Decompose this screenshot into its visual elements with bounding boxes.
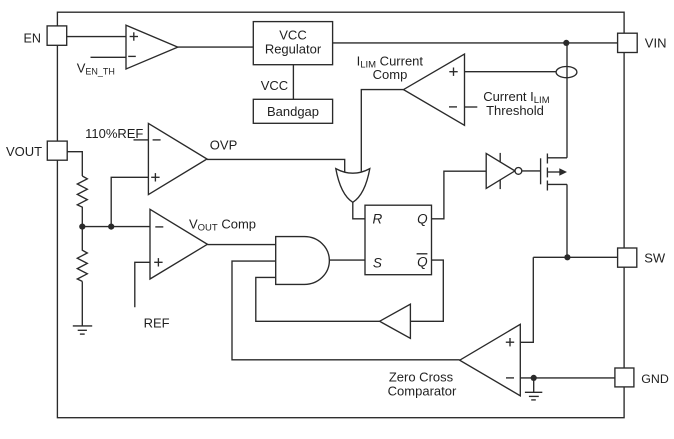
plus sign VOUT comparator <box>154 258 162 266</box>
block Bandgap <box>253 99 332 123</box>
wire divider bottom to ground <box>81 281 83 325</box>
svg-text:R: R <box>373 212 383 227</box>
wire AND gate output to flip-flop S input <box>329 259 365 261</box>
wire current sense branch from VIN node down to MOSFET drain <box>566 43 568 158</box>
AND gate feeding flip-flop S input <box>276 237 330 285</box>
wire ILIM comparator output to OR gate right input <box>361 90 403 174</box>
wire driver bubble to MOSFET gate <box>522 170 541 172</box>
wire SW node to zero cross + input <box>520 257 533 342</box>
op-amp EN comparator <box>126 25 178 69</box>
wire zero cross ground stub <box>533 378 535 392</box>
OR gate (inputs on top, output down to R) <box>336 169 370 203</box>
driver bottom supply tick <box>499 180 501 189</box>
current sense ellipse on VIN branch <box>556 67 577 78</box>
minus sign EN comparator <box>128 55 136 57</box>
wire REF to VOUT comp + input <box>135 262 150 307</box>
svg-text:VIN: VIN <box>645 36 667 51</box>
wire VCC Regulator to VIN pin <box>333 42 618 44</box>
junction node SW <box>564 254 570 260</box>
wire divider node to VOUT comp - input <box>82 226 150 228</box>
wire SW node to SW pin <box>533 256 617 258</box>
wire VCC Regulator to Bandgap <box>292 65 294 100</box>
transistor Q1 channel segments <box>546 154 548 191</box>
svg-text:110%REF: 110%REF <box>85 126 143 141</box>
transistor Q1 source stub <box>547 183 567 185</box>
svg-text:Q: Q <box>417 212 428 227</box>
svg-text:VCC: VCC <box>279 28 306 43</box>
svg-text:VCC: VCC <box>261 78 288 93</box>
transistor Q1 body arrow <box>547 168 567 175</box>
wire VOUT comp output to AND gate top input <box>207 244 275 246</box>
minus sign zero cross comparator <box>506 377 514 379</box>
wire ILIM comparator - input stub (Current ILIM Threshold) <box>465 106 478 108</box>
minus sign OVP comparator <box>153 139 161 141</box>
wire ILIM comparator + input to current sense ellipse <box>465 71 557 73</box>
svg-text:Regulator: Regulator <box>265 42 322 57</box>
junction node OVP tap <box>108 224 114 230</box>
overline for Qbar <box>417 253 428 255</box>
svg-text:Q: Q <box>417 255 428 270</box>
gate driver inverter <box>486 153 515 188</box>
plus sign OVP comparator <box>151 173 159 181</box>
wire V_EN_TH stub to comparator - input <box>91 56 127 58</box>
ground symbol at zero cross - input <box>525 392 542 400</box>
driver top supply tick <box>499 153 501 162</box>
plus sign ILIM comparator <box>449 68 457 76</box>
op-amp VOUT comparator <box>150 209 207 279</box>
wire buffer output feedback to AND gate bottom input <box>256 277 380 321</box>
junction node zero cross ground <box>531 375 537 381</box>
wire VOUT pin to feedback divider <box>67 152 82 176</box>
flip-flop RS latch U2 <box>365 205 432 275</box>
buffer (feedback, pointing left) <box>380 304 411 338</box>
junction node feedback divider <box>79 224 85 230</box>
svg-text:SW: SW <box>644 250 666 265</box>
svg-text:Bandgap: Bandgap <box>267 104 319 119</box>
wire EN pin to comparator + input <box>67 36 126 38</box>
wire OR gate output to flip-flop R input <box>353 202 365 219</box>
pin SW square <box>618 248 637 267</box>
IC boundary border <box>57 12 624 418</box>
minus sign VOUT comparator <box>155 226 163 228</box>
driver inversion bubble <box>515 168 522 175</box>
ground symbol below divider <box>73 326 92 334</box>
wire OVP + input tap from divider node <box>111 177 148 226</box>
resistor R1 upper feedback divider <box>77 176 87 227</box>
transistor Q1 high side MOSFET gate plate <box>540 158 542 184</box>
wire EN comparator output to VCC Regulator <box>178 46 254 48</box>
svg-text:Comp: Comp <box>373 67 408 82</box>
pin VIN square <box>618 33 638 52</box>
wire 110%REF stub to OVP - input <box>134 139 149 141</box>
plus sign zero cross comparator <box>506 338 514 346</box>
plus sign EN comparator <box>130 32 138 40</box>
svg-text:S: S <box>373 255 382 270</box>
junction node on VIN wire <box>563 40 569 46</box>
pin VOUT square <box>47 141 67 160</box>
wire zero cross output feedback to AND gate middle input <box>232 261 460 360</box>
wire OVP output to OR gate left input <box>207 159 345 173</box>
svg-text:Comparator: Comparator <box>388 383 457 398</box>
op-amp zero cross comparator <box>460 324 521 396</box>
wire MOSFET source to SW node <box>566 184 568 257</box>
transistor Q1 drain stub <box>547 157 567 159</box>
minus sign ILIM comparator <box>449 106 457 108</box>
wire zero cross - input to GND pin <box>520 377 615 379</box>
wire flip-flop Qbar output to buffer input <box>410 260 443 321</box>
block VCC Regulator U1 <box>253 22 332 65</box>
svg-text:REF: REF <box>144 315 170 330</box>
resistor R2 lower feedback divider <box>77 227 87 282</box>
svg-text:GND: GND <box>641 372 669 386</box>
op-amp OVP comparator <box>148 123 207 194</box>
svg-text:OVP: OVP <box>210 138 237 153</box>
pin EN square <box>47 26 67 45</box>
op-amp ILIM current comparator <box>404 54 465 125</box>
svg-text:VOUT: VOUT <box>6 144 42 159</box>
wire flip-flop Q output to gate driver <box>432 171 487 219</box>
pin GND square <box>615 368 634 387</box>
svg-text:Threshold: Threshold <box>486 103 544 118</box>
svg-text:EN: EN <box>24 31 42 45</box>
